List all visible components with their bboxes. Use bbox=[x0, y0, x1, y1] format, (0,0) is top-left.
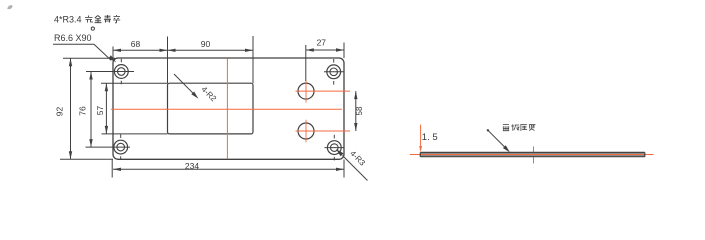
glyph ban bbox=[511, 124, 519, 131]
ext 27 left (down to upper right hole) bbox=[305, 45, 307, 81]
smudge mark top-left bbox=[7, 5, 12, 9]
hole BL countersunk bbox=[114, 134, 128, 160]
贯 bbox=[104, 15, 111, 23]
leader + note "4*R3.4 completely through" bbox=[53, 44, 111, 60]
svg-text:92: 92 bbox=[55, 107, 65, 117]
svg-text:4*R3.4: 4*R3.4 bbox=[54, 15, 82, 25]
svg-text:27: 27 bbox=[317, 38, 327, 48]
dimension 90 bbox=[168, 49, 254, 52]
CJK 面板厚度 (drawn glyphs) bbox=[503, 124, 536, 131]
right hole upper bbox=[298, 83, 314, 99]
dimension 27 bbox=[306, 48, 344, 51]
ext through TL hole (76 top) bbox=[86, 71, 134, 73]
ext inner-rect bottom to left (57 bottom) bbox=[102, 133, 168, 135]
hole TR countersunk bbox=[324, 59, 344, 85]
svg-text:90: 90 bbox=[201, 39, 211, 49]
ext plate bottom to left bbox=[60, 158, 113, 160]
extension lines (black) bbox=[60, 36, 344, 178]
dimension 57 bbox=[105, 83, 108, 134]
centerline right hole lower (orange) bbox=[296, 130, 351, 132]
dimension 68 bbox=[113, 49, 168, 52]
svg-text:4-R3: 4-R3 bbox=[348, 149, 367, 168]
horizontal centerline (orange) bbox=[111, 108, 342, 110]
right hole lower bbox=[298, 123, 314, 139]
orange center tick bbox=[533, 147, 535, 164]
穿 bbox=[113, 15, 120, 23]
svg-text:68: 68 bbox=[131, 39, 141, 49]
ext plate top to left bbox=[63, 57, 115, 59]
ext plate left edge upward bbox=[112, 47, 114, 59]
ext 27 right / plate right edge upward bbox=[343, 43, 345, 59]
ext inner-rect left edge upward bbox=[167, 37, 169, 84]
完 bbox=[85, 16, 93, 23]
svg-text:R6.6 X90: R6.6 X90 bbox=[54, 33, 92, 43]
dimension 76 bbox=[89, 72, 92, 148]
svg-text:234: 234 bbox=[185, 161, 199, 171]
centerline right hole upper (orange) bbox=[296, 90, 351, 92]
leader 4-R2 bbox=[174, 74, 194, 94]
svg-text:4-R2: 4-R2 bbox=[199, 85, 218, 104]
svg-text:76: 76 bbox=[78, 106, 88, 116]
ext inner-rect top to left (57 top) bbox=[101, 82, 168, 84]
dimension 1.5 (orange) bbox=[420, 125, 422, 147]
hole TL countersunk bbox=[114, 59, 128, 85]
CJK 完全贯穿 (drawn glyphs) bbox=[85, 15, 120, 23]
plate outline (front view) bbox=[113, 58, 344, 159]
leader panel-thickness bbox=[487, 129, 489, 131]
dimension 58 bbox=[354, 91, 357, 131]
inner rectangle cutout bbox=[168, 83, 254, 134]
ext inner-rect right edge upward bbox=[252, 36, 254, 83]
hole BR countersunk bbox=[325, 135, 345, 161]
ext through BL hole (76 bottom) bbox=[86, 146, 131, 148]
glyph mian bbox=[503, 125, 509, 131]
orange centerline through bar bbox=[410, 154, 654, 156]
svg-text:1. 5: 1. 5 bbox=[422, 132, 438, 143]
ext 234 right below plate bbox=[343, 160, 345, 178]
全 bbox=[95, 16, 102, 23]
svg-text:58: 58 bbox=[355, 106, 364, 115]
vertical centerline (orange) bbox=[226, 58, 228, 159]
dimension 234 bbox=[113, 168, 344, 171]
ext 234 left below plate bbox=[111, 160, 113, 178]
svg-text:57: 57 bbox=[95, 106, 105, 116]
glyph du bbox=[529, 125, 536, 131]
dimension 92 bbox=[69, 58, 72, 159]
glyph hou bbox=[520, 125, 527, 131]
leader 4-R3 bbox=[343, 156, 368, 181]
degree symbol bbox=[91, 27, 94, 30]
bar outline bbox=[420, 152, 645, 157]
bar fill bbox=[420, 153, 645, 157]
